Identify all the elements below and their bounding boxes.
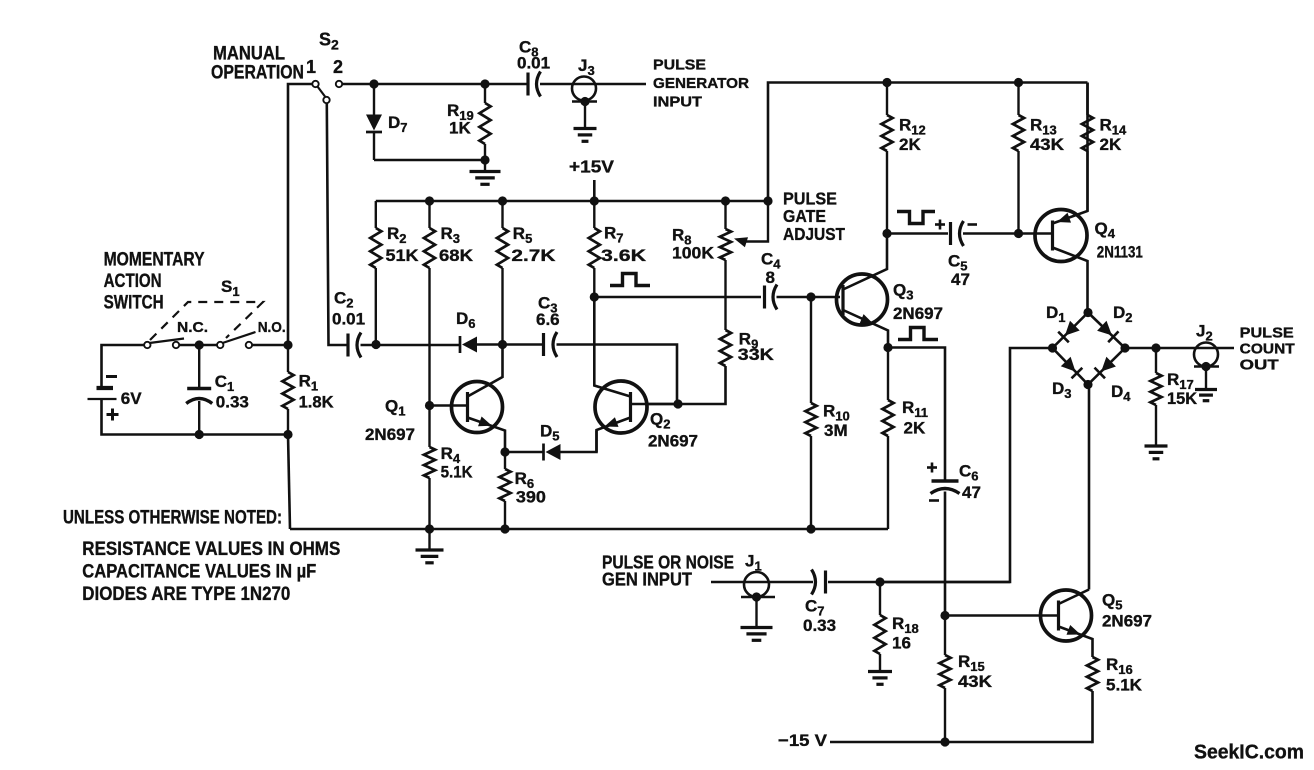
switch S1 NO lever	[223, 332, 256, 343]
svg-text:390: 390	[516, 488, 546, 507]
capacitor C1	[198, 345, 200, 388]
connector J1	[744, 572, 769, 597]
svg-text:S2: S2	[319, 30, 339, 53]
diode D1	[1065, 321, 1080, 336]
svg-text:0.33: 0.33	[216, 393, 249, 412]
resistor R14	[1086, 83, 1089, 116]
junction dot R6 bottom	[500, 524, 509, 533]
capacitor C3	[542, 333, 545, 356]
svg-text:ACTION: ACTION	[104, 271, 162, 292]
wire S2 pole down to C2	[327, 103, 348, 345]
svg-text:S1: S1	[221, 277, 240, 299]
capacitor C4	[763, 286, 766, 309]
resistor R4	[428, 406, 430, 448]
connector J2	[1194, 343, 1218, 367]
junction dot R12 top	[882, 78, 891, 87]
svg-text:R3: R3	[441, 224, 461, 246]
ground below R17	[1145, 444, 1168, 447]
capacitor C6	[932, 479, 959, 482]
junction dot Q2 base node	[673, 399, 682, 408]
junction dot D6-C3-Q1 collector node	[498, 340, 507, 349]
junction dot Q5 base node	[940, 611, 949, 620]
ground below J3	[584, 102, 586, 129]
transistor Q3 emitter	[843, 310, 888, 348]
svg-text:Q2: Q2	[650, 410, 670, 432]
wire bridge right to J2	[1125, 347, 1234, 350]
junction dot Q1 base node	[425, 401, 434, 410]
transistor Q2 circle	[595, 381, 647, 433]
svg-text:2K: 2K	[899, 135, 921, 154]
junction dot Q3 emitter node	[883, 343, 892, 352]
transistor Q1 circle	[452, 382, 503, 433]
junction dot C1 top	[195, 340, 204, 349]
switch S1 linkage dashed	[150, 302, 263, 340]
resistor R3	[428, 201, 430, 228]
wire bridge bottom to Q5 collector	[1088, 385, 1091, 590]
resistor R13	[1017, 83, 1019, 116]
resistor R5	[501, 201, 503, 228]
svg-text:C1: C1	[215, 372, 235, 394]
resistor R11	[887, 348, 889, 401]
wire +15V stub	[593, 180, 596, 201]
svg-text:Q3: Q3	[893, 281, 913, 303]
svg-text:GEN INPUT: GEN INPUT	[602, 570, 692, 590]
switch S1 NC contact b	[173, 342, 179, 348]
svg-text:3.6K: 3.6K	[601, 246, 647, 265]
transistor Q4 emitter	[1053, 83, 1088, 224]
svg-text:2: 2	[333, 57, 343, 77]
transistor Q5 circle	[1041, 590, 1092, 641]
svg-text:N.C.: N.C.	[177, 319, 208, 336]
transistor Q5 base bar	[1057, 601, 1060, 631]
connector J2 sleeve dot	[1201, 362, 1210, 371]
svg-text:100K: 100K	[672, 244, 715, 263]
junction dot R3 top	[425, 196, 434, 205]
svg-text:RESISTANCE VALUES IN OHMS: RESISTANCE VALUES IN OHMS	[82, 539, 340, 560]
ground on bus	[428, 529, 430, 550]
transistor Q4 base wire	[1036, 232, 1053, 235]
wire C4 to Q3 base	[777, 296, 841, 299]
junction dot R19 top	[480, 79, 489, 88]
switch S1 NO contact a	[217, 342, 223, 348]
svg-text:33K: 33K	[738, 345, 775, 364]
wire D7 bottom to R19 bottom	[374, 159, 485, 162]
svg-text:MOMENTARY: MOMENTARY	[104, 250, 205, 271]
svg-text:47: 47	[962, 483, 981, 502]
connector J3	[572, 77, 596, 101]
transistor Q5 emitter	[1059, 627, 1093, 658]
svg-text:3M: 3M	[824, 421, 848, 440]
wire pulse-gate vertical to top right rail	[768, 83, 1088, 202]
svg-text:SeekIC.com: SeekIC.com	[1194, 741, 1304, 764]
resistor R18	[879, 582, 881, 615]
svg-text:2K: 2K	[1100, 135, 1122, 154]
svg-text:Q4: Q4	[1095, 219, 1116, 241]
svg-text:0.01: 0.01	[332, 310, 365, 329]
svg-text:PULSE: PULSE	[653, 57, 706, 74]
potentiometer R8 wiper arrow	[742, 201, 768, 242]
transistor Q2 base bar	[629, 392, 632, 422]
transistor Q2 base wire	[631, 403, 679, 406]
junction dot C1 bottom	[195, 430, 204, 439]
transistor Q2 collector	[594, 297, 630, 397]
junction dot R1 bottom	[283, 430, 292, 439]
junction dot R10 bottom	[806, 524, 815, 533]
svg-text:D4: D4	[1111, 382, 1131, 404]
ground below J2	[1205, 367, 1207, 390]
junction dot R4 bottom	[425, 524, 434, 533]
svg-text:6V: 6V	[121, 389, 142, 408]
svg-text:D7: D7	[388, 113, 408, 135]
svg-text:2N697: 2N697	[365, 426, 415, 444]
junction dot R7-C4 node	[590, 292, 599, 301]
transistor Q3 base bar	[841, 285, 844, 315]
wire battery plus row	[102, 345, 145, 388]
diode D3	[1061, 357, 1076, 372]
svg-text:R15: R15	[958, 652, 985, 674]
svg-text:Q1: Q1	[385, 397, 405, 419]
svg-text:SWITCH: SWITCH	[104, 293, 164, 314]
capacitor C5 minus sign	[968, 223, 978, 226]
wire S2 contact1 to left column	[288, 84, 312, 345]
diode D5	[542, 444, 545, 461]
wire C5 to Q4 base	[963, 232, 1036, 235]
svg-text:R11: R11	[902, 398, 928, 420]
transistor Q5 collector	[1059, 590, 1090, 605]
ground below R19	[484, 160, 486, 171]
svg-text:+15V: +15V	[569, 157, 614, 177]
svg-text:D2: D2	[1113, 303, 1133, 325]
wire Q3 collector to C5	[887, 232, 948, 235]
junction dot +15V bus	[590, 196, 599, 205]
svg-text:D3: D3	[1052, 379, 1072, 401]
resistor R9	[720, 330, 731, 366]
svg-text:R7: R7	[604, 224, 624, 246]
transistor Q3 collector	[843, 234, 887, 290]
resistor R15	[944, 616, 946, 656]
diode D7	[373, 84, 375, 115]
svg-text:6.6: 6.6	[536, 310, 560, 329]
junction dot R8 top	[721, 196, 730, 205]
transistor Q2 emitter	[597, 418, 631, 453]
pulse waveform icon at Q3 emitter	[898, 328, 938, 340]
transistor Q4 collector	[1053, 248, 1088, 313]
svg-text:N.O.: N.O.	[258, 319, 286, 336]
switch S2 lever	[318, 87, 326, 97]
capacitor C2	[346, 334, 349, 357]
svg-text:51K: 51K	[386, 246, 420, 265]
switch S1 NO contact b	[246, 342, 252, 348]
diode D6	[459, 336, 462, 353]
resistor R6	[504, 452, 506, 469]
resistor R1	[287, 345, 289, 372]
wire Q3 emitter to C6 corner	[888, 348, 945, 482]
potentiometer R8	[724, 201, 726, 229]
wire R7 bottom to C4	[594, 296, 761, 299]
svg-text:16: 16	[892, 634, 911, 653]
svg-text:MANUAL: MANUAL	[213, 44, 285, 65]
svg-text:R2: R2	[387, 224, 407, 246]
svg-text:OUT: OUT	[1240, 357, 1279, 374]
junction dot Q4 base node	[1014, 229, 1023, 238]
wire C7 to R18 node	[828, 581, 1010, 584]
svg-text:5.1K: 5.1K	[441, 463, 474, 482]
transistor Q3 circle	[837, 274, 888, 325]
wire bridge edges	[1053, 313, 1126, 385]
svg-text:INPUT: INPUT	[653, 94, 702, 111]
pulse waveform icon inverted at C5	[897, 212, 935, 224]
wire +15V bus	[376, 200, 768, 203]
svg-text:1: 1	[306, 57, 316, 77]
junction dot bridge top	[1083, 308, 1092, 317]
wire C2 to D6	[361, 344, 461, 347]
junction dot Q3 base node	[806, 292, 815, 301]
svg-text:R16: R16	[1106, 655, 1133, 677]
svg-text:DIODES ARE TYPE 1N270: DIODES ARE TYPE 1N270	[82, 584, 290, 605]
svg-text:2N697: 2N697	[1102, 613, 1152, 631]
resistor R10	[810, 297, 812, 403]
battery plus sign	[107, 413, 119, 416]
wire Q5 base	[945, 614, 1059, 617]
resistor R17	[1155, 348, 1157, 373]
wire Q1 emitter to D5	[505, 451, 544, 454]
svg-text:D5: D5	[540, 422, 560, 444]
capacitor C5	[949, 222, 952, 245]
svg-text:PULSE: PULSE	[1240, 325, 1294, 342]
junction dot Q3 collector node	[882, 229, 891, 238]
svg-text:5.1K: 5.1K	[1106, 676, 1143, 695]
svg-text:D6: D6	[456, 309, 476, 331]
wire -15V rail	[830, 741, 1093, 744]
transistor Q4 base bar	[1051, 221, 1054, 251]
svg-text:D1: D1	[1046, 303, 1066, 325]
resistor R2	[375, 201, 377, 228]
svg-text:2N697: 2N697	[648, 433, 698, 451]
capacitor C6 minus sign	[929, 499, 939, 502]
transistor Q1 collector	[468, 345, 503, 397]
switch S2 contact 2	[336, 81, 342, 87]
svg-text:UNLESS OTHERWISE NOTED:: UNLESS OTHERWISE NOTED:	[63, 508, 282, 529]
junction dot D7 top	[369, 79, 378, 88]
switch S1 NC lever	[150, 339, 185, 344]
svg-text:GENERATOR: GENERATOR	[653, 75, 749, 92]
wire D6 to C3	[477, 343, 543, 346]
wire D5 to Q2 emitter	[561, 431, 597, 453]
junction dot bridge bottom	[1083, 380, 1092, 389]
wire input to C7	[711, 581, 813, 584]
connector J1 sleeve dot	[752, 592, 761, 601]
junction dot C2-R2 node	[371, 340, 380, 349]
wire top node S2-2 to C8	[342, 83, 526, 86]
svg-text:C2: C2	[334, 289, 354, 311]
svg-text:R5: R5	[513, 224, 533, 246]
wire C8 to pulse generator input	[540, 83, 646, 86]
transistor Q1 base bar	[466, 392, 469, 422]
svg-text:1K: 1K	[449, 119, 471, 138]
svg-text:0.33: 0.33	[803, 616, 836, 635]
junction dot R13 top	[1014, 78, 1023, 87]
svg-text:1.8K: 1.8K	[299, 393, 335, 412]
svg-text:J2: J2	[1196, 322, 1213, 344]
junction dot pulse-gate corner	[763, 196, 772, 205]
capacitor C7	[824, 571, 827, 594]
svg-text:2N697: 2N697	[893, 305, 943, 323]
svg-text:R1: R1	[299, 371, 319, 393]
capacitor C8	[526, 73, 529, 96]
svg-text:43K: 43K	[958, 672, 993, 691]
svg-text:2N1131: 2N1131	[1097, 243, 1143, 261]
ground below R18	[868, 670, 892, 673]
junction dot R19 bottom	[480, 155, 489, 164]
transistor Q1 base wire	[430, 404, 468, 407]
svg-text:COUNT: COUNT	[1240, 341, 1295, 358]
svg-text:J1: J1	[745, 552, 762, 574]
capacitor C5 plus sign	[935, 223, 945, 226]
battery 6V plates	[97, 386, 114, 390]
svg-text:15K: 15K	[1167, 389, 1198, 408]
resistor R19	[484, 84, 486, 103]
svg-text:OPERATION: OPERATION	[211, 63, 304, 84]
junction dot R15 bottom	[940, 737, 949, 746]
svg-text:43K: 43K	[1030, 135, 1065, 154]
svg-text:68K: 68K	[439, 246, 474, 265]
svg-text:CAPACITANCE VALUES IN µF: CAPACITANCE VALUES IN µF	[82, 562, 316, 583]
pulse waveform icon near R7	[610, 274, 650, 286]
wire battery bottom	[102, 399, 289, 435]
svg-text:2.7K: 2.7K	[511, 246, 556, 265]
resistor R7	[593, 201, 595, 228]
junction dot R1 top node	[283, 340, 292, 349]
resistor R16	[1087, 657, 1098, 691]
svg-text:C6: C6	[959, 462, 979, 484]
junction dot R5 top	[498, 196, 507, 205]
switch S1 NC contact a	[144, 342, 150, 348]
svg-text:0.01: 0.01	[517, 54, 550, 73]
junction dot bridge right	[1120, 343, 1129, 352]
wire NC-b to NO-a	[179, 344, 217, 347]
svg-text:Q5: Q5	[1102, 591, 1122, 613]
junction dot R18 top	[875, 577, 884, 586]
junction dot R17 top	[1151, 343, 1160, 352]
junction dot Q1 emitter node	[500, 447, 509, 456]
wire C3 to Q2 base corner	[557, 345, 678, 405]
ground below J1	[755, 597, 757, 627]
svg-text:ADJUST: ADJUST	[783, 224, 845, 244]
switch S2 contact 1	[312, 81, 318, 87]
svg-text:8: 8	[766, 268, 775, 287]
junction dot bridge left	[1048, 343, 1057, 352]
svg-text:−15 V: −15 V	[778, 731, 828, 750]
wire ground bus	[290, 528, 888, 531]
wire C6 to Q5 base node	[944, 492, 947, 616]
transistor Q4 circle	[1035, 210, 1087, 262]
resistor R12	[886, 83, 888, 116]
connector J3 sleeve dot	[580, 97, 589, 106]
diode D2	[1097, 321, 1112, 336]
wire NO-b to R1 node	[252, 344, 288, 347]
svg-text:47: 47	[951, 270, 970, 289]
transistor Q1 emitter	[468, 418, 506, 453]
svg-text:J3: J3	[578, 56, 595, 78]
wire bridge left to input line	[880, 348, 1053, 582]
capacitor C6 plus sign	[927, 466, 937, 469]
diode D4	[1101, 357, 1116, 372]
svg-text:2K: 2K	[904, 419, 926, 438]
battery minus sign	[106, 375, 117, 378]
